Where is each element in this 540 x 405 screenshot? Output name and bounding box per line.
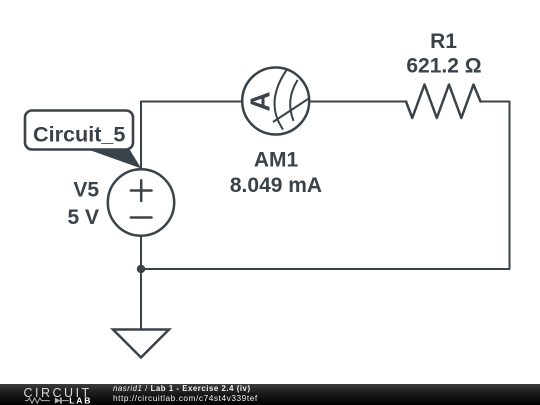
svg-text:Circuit_5: Circuit_5 — [33, 121, 125, 146]
svg-text:8.049 mA: 8.049 mA — [230, 174, 322, 197]
svg-text:V5: V5 — [73, 179, 99, 202]
svg-text:AM1: AM1 — [254, 149, 299, 172]
svg-text:A: A — [245, 91, 276, 111]
wire V5 bottom to ground — [140, 236, 142, 330]
wire ammeter to resistor — [309, 101, 406, 103]
callout Circuit_5 box — [25, 111, 133, 150]
resistor R1 — [406, 85, 481, 119]
svg-text:5 V: 5 V — [67, 206, 99, 229]
svg-text:621.2 Ω: 621.2 Ω — [406, 55, 481, 78]
wire top-left (V5 top to ammeter) — [141, 102, 242, 170]
callout Circuit_5 tail — [81, 147, 141, 169]
svg-text:LAB: LAB — [69, 395, 92, 405]
svg-text:R1: R1 — [430, 30, 457, 53]
ammeter AM1 — [242, 68, 309, 135]
footer bar — [0, 384, 540, 405]
junction dot — [137, 265, 145, 273]
wire resistor to right side down to bottom — [141, 102, 510, 270]
voltage source V5 — [108, 169, 174, 235]
circuitlab logo — [22, 385, 97, 405]
ground — [113, 330, 169, 358]
